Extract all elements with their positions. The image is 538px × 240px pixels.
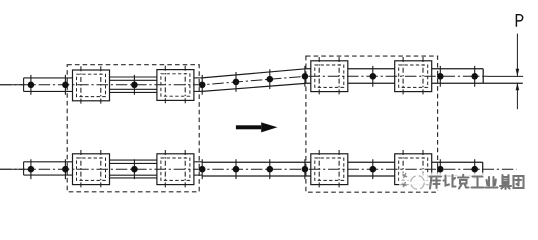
attachment box T3 (311, 57, 348, 96)
top chain pin ticks (31, 66, 475, 95)
attachment box B4 (395, 150, 432, 189)
attachment box B1 (73, 150, 110, 189)
P dimension (516, 34, 518, 110)
attachment box T4 (395, 57, 432, 96)
bottom chain pins (28, 166, 478, 173)
top chain right band plates (306, 69, 523, 84)
top chain incline band (202, 69, 306, 92)
attachment box B2 (157, 150, 194, 189)
top chain left band plates (24, 77, 202, 92)
dashed module rectangle left (67, 65, 199, 192)
attachment box T1 (73, 66, 110, 105)
bottom chain pin ticks (31, 159, 475, 179)
dashed module rectangle right (306, 56, 438, 192)
top chain pins (28, 73, 478, 88)
direction arrow (236, 122, 278, 132)
top chain centerline (0, 76, 488, 85)
attachment box B3 (311, 150, 348, 189)
watermark (399, 173, 525, 192)
bottom chain centerline (0, 168, 517, 170)
attachment box T2 (157, 66, 194, 105)
bottom chain band plates (24, 160, 202, 178)
